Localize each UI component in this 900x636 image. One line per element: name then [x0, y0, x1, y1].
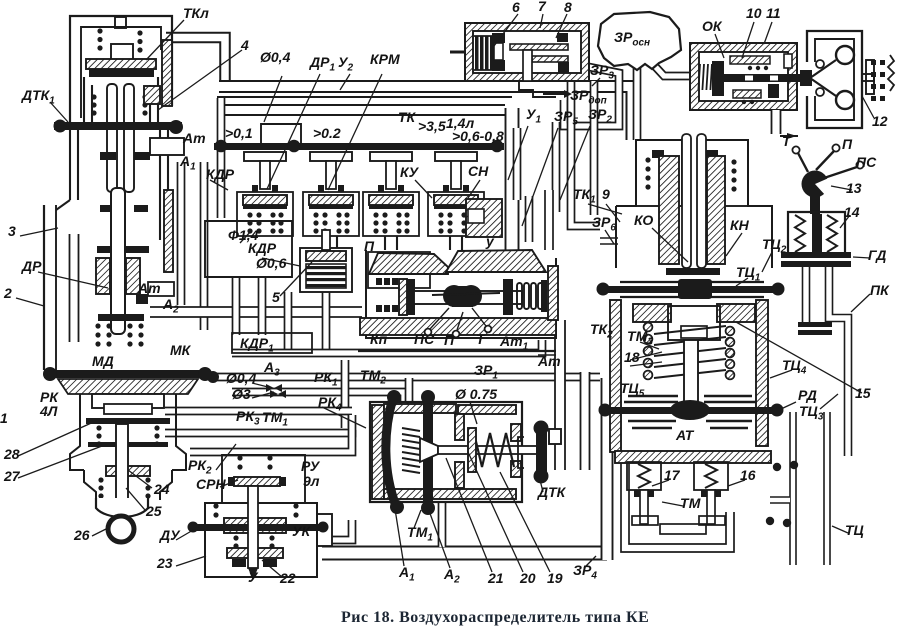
spring of TKl valve	[97, 28, 142, 52]
valve 6-7-8 piston	[492, 33, 505, 71]
diaphragm DTK1	[54, 120, 184, 135]
wire ZR6 stub	[600, 237, 618, 245]
svg-text:СН: СН	[468, 163, 489, 179]
svg-text:28: 28	[3, 446, 20, 462]
wire KRM main line	[219, 87, 632, 141]
rollers of unit 12	[800, 46, 874, 109]
valve TKl lower body	[84, 77, 158, 126]
svg-text:Ø 0.75: Ø 0.75	[455, 386, 497, 402]
svg-text:КРМ: КРМ	[370, 51, 400, 67]
valve 6-7-8 stem	[450, 50, 532, 81]
wire DTK channel right of A1 unit	[554, 320, 566, 470]
wire KDR box down 2	[258, 277, 267, 335]
A1 unit shaft	[438, 446, 538, 454]
tank ZRosn	[598, 12, 681, 70]
regulator bar 25	[88, 442, 168, 447]
svg-text:22: 22	[279, 570, 296, 586]
SN valve body hatch	[466, 199, 502, 237]
svg-text:15: 15	[855, 385, 871, 401]
unit KP right spring loops	[517, 280, 547, 312]
junction dot ZR1	[207, 371, 219, 383]
wire ZRosn down to TK1 unit	[633, 68, 642, 140]
svg-text:4: 4	[240, 37, 249, 53]
wire ZR4 bottom channel	[322, 546, 607, 561]
reducing valve SN	[428, 152, 484, 236]
SRN spring dots	[237, 455, 272, 469]
A1 unit right spring	[468, 428, 514, 472]
regulator lower body	[84, 470, 172, 500]
svg-text:1: 1	[0, 410, 8, 426]
wire GD down left	[802, 266, 811, 322]
UK diaphragm bar	[188, 522, 329, 533]
reducing valve KDR	[237, 152, 293, 236]
stem rods of TKl	[107, 84, 134, 192]
TC5 plates left	[624, 396, 678, 428]
SRN hatched bar	[228, 477, 286, 486]
svg-text:Т: Т	[782, 133, 792, 149]
svg-text:У: У	[248, 569, 259, 585]
valve 3 drop stem	[385, 236, 397, 250]
svg-text:Рис 18. Воздухораспределител: Рис 18. Воздухораспределитель типа КЕ	[341, 609, 649, 626]
TKl right wall hatch	[144, 40, 172, 106]
unit TK1 housing	[616, 140, 772, 268]
wire TC pipe left	[789, 412, 797, 565]
wire U1 channel	[513, 128, 522, 200]
UK lower hatched bar	[227, 548, 283, 567]
bar GD	[781, 252, 851, 267]
svg-text:Ø0,4: Ø0,4	[260, 49, 291, 65]
check valve OK housing	[690, 43, 797, 110]
svg-text:Ат: Ат	[182, 130, 206, 146]
wire duct from TKl valve to KRM line	[166, 38, 225, 93]
unit KP hatched floor	[358, 318, 556, 351]
svg-text:25: 25	[145, 503, 162, 519]
PK link plates	[798, 322, 832, 335]
regulator piston 24 hatched	[106, 466, 150, 476]
svg-text:ТК: ТК	[398, 109, 417, 125]
wire ZR4 left riser	[580, 372, 591, 470]
svg-text:9л: 9л	[303, 473, 320, 489]
spring 18 coil sections	[726, 327, 735, 380]
unit RD floor hatched	[615, 451, 771, 463]
svg-text:П: П	[444, 332, 455, 348]
UK hatched block	[224, 518, 286, 533]
svg-text:ТЦ: ТЦ	[845, 522, 864, 538]
svg-text:27: 27	[3, 468, 21, 484]
wire A1 unit drain	[438, 502, 447, 547]
base plate TM	[660, 524, 706, 534]
svg-text:14: 14	[844, 204, 860, 220]
valve TKl housing	[70, 16, 172, 128]
svg-text:МД: МД	[92, 353, 114, 369]
spring TM3 coil sections	[644, 323, 653, 380]
svg-text:КУ: КУ	[400, 164, 420, 180]
valve 6-7-8 right blocks	[557, 33, 569, 73]
wire SN drop channel	[525, 196, 534, 242]
svg-text:17: 17	[664, 467, 681, 483]
UK spring dots	[213, 503, 298, 548]
svg-text:ПС: ПС	[414, 331, 435, 347]
fork 25	[96, 498, 148, 517]
unit KP right wall	[548, 266, 558, 320]
caption	[341, 609, 649, 626]
valve 6-7-8 hatched seats	[510, 44, 568, 62]
svg-text:МК: МК	[170, 342, 192, 358]
regulator bar 28	[86, 418, 170, 424]
svg-text:5: 5	[272, 289, 280, 305]
svg-text:ДТК: ДТК	[537, 484, 567, 500]
seat bar TC1	[666, 268, 720, 275]
diaphragm bar TKl	[89, 69, 154, 77]
regulator stem	[116, 424, 128, 504]
wire RK1 channel	[232, 392, 404, 404]
svg-text:КДР: КДР	[248, 240, 277, 256]
unit KP left slab	[399, 279, 415, 315]
unit KP shaft	[414, 291, 522, 304]
spring dots DR	[95, 323, 143, 346]
valve KN hatched slab	[707, 156, 725, 264]
svg-text:26: 26	[73, 527, 90, 543]
manifold bar TK	[214, 140, 504, 153]
svg-text:ТКл: ТКл	[183, 5, 209, 21]
valve 6-7-8 housing	[465, 23, 589, 81]
svg-text:РД: РД	[798, 387, 817, 403]
svg-text:4Л: 4Л	[39, 403, 58, 419]
RD stem	[684, 340, 698, 404]
DTK capsule	[518, 421, 549, 484]
UK stem	[248, 486, 258, 580]
piston hatch DR right	[126, 258, 140, 294]
orifice symbols F04 F3	[266, 384, 286, 398]
svg-text:у: у	[485, 233, 495, 249]
wire TM1 channel	[165, 415, 352, 433]
svg-text:8: 8	[564, 0, 572, 15]
unit KP pin circles	[425, 308, 492, 337]
wire KDR box down	[232, 277, 241, 335]
spring box 14	[788, 212, 845, 256]
diaphragm bar RD	[599, 400, 784, 420]
unit SRN upper box	[222, 455, 305, 503]
DTK side port	[549, 429, 561, 444]
piston TKl hatched cap	[86, 59, 156, 69]
svg-text:>0,1: >0,1	[225, 125, 253, 141]
seat bar DR	[97, 246, 149, 253]
svg-text:РУ: РУ	[301, 458, 321, 474]
svg-text:КН: КН	[730, 217, 750, 233]
valve DR housing	[44, 200, 168, 370]
A1 unit cone	[420, 438, 438, 462]
valve 17	[627, 462, 661, 525]
svg-text:19: 19	[547, 570, 563, 586]
svg-text:11: 11	[766, 5, 781, 21]
unit KP roof slab left	[369, 253, 448, 274]
piston 5	[300, 230, 352, 292]
svg-text:>0,6-0,8: >0,6-0,8	[452, 128, 504, 144]
svg-text:ТМ: ТМ	[680, 495, 701, 511]
TK1 left tower	[636, 140, 682, 206]
svg-text:ДР: ДР	[21, 258, 42, 274]
valve 4 drop stem	[450, 236, 462, 250]
unit A1 hatched walls	[372, 404, 516, 499]
reducing valve KU	[363, 152, 419, 236]
svg-text:Ø0,6: Ø0,6	[256, 255, 287, 271]
svg-text:21: 21	[487, 570, 504, 586]
wire U1a channel	[552, 122, 561, 212]
svg-text:ГД: ГД	[868, 247, 886, 263]
TC5 plates right	[704, 396, 756, 428]
diaphragm bar TC1 main	[597, 279, 785, 299]
valve TKl body below diaphragm	[70, 130, 184, 200]
unit A1 mid hatched slabs	[455, 414, 521, 488]
unit RD housing walls	[610, 300, 768, 452]
wire OK drain down	[771, 110, 782, 134]
unit UK housing	[205, 503, 332, 577]
orifice box KDR	[205, 221, 292, 277]
spring 18 coil body	[654, 326, 726, 378]
svg-text:6: 6	[512, 0, 520, 15]
svg-text:Ø0,4: Ø0,4	[226, 370, 257, 386]
svg-text:ОК: ОК	[702, 18, 723, 34]
stem rod DR	[111, 188, 125, 334]
svg-text:КО: КО	[634, 212, 653, 228]
regulator springs 25	[98, 477, 150, 498]
cylinder 11-12 housing	[807, 31, 862, 128]
KN spring dots	[731, 159, 736, 191]
wire At1 channel	[544, 190, 554, 250]
regulator RK housing	[70, 394, 186, 470]
mark T top	[780, 133, 798, 139]
svg-text:2: 2	[3, 285, 12, 301]
svg-text:АТ: АТ	[675, 427, 695, 443]
At overbar mark	[538, 354, 556, 356]
wire piston5 down 2	[322, 292, 331, 352]
svg-text:ПК: ПК	[870, 282, 890, 298]
MK wall hatch	[164, 190, 173, 272]
A1 unit spring left	[402, 428, 420, 473]
DR lower seat bar	[98, 294, 148, 321]
wire MK to KP unit	[150, 306, 362, 318]
reducing valve KU1	[303, 152, 359, 236]
wire TC stub	[770, 496, 790, 504]
svg-text:18: 18	[624, 349, 640, 365]
wire TM bottom loop	[625, 455, 730, 548]
svg-text:Кп: Кп	[370, 331, 388, 347]
valve 2 drop stem	[325, 236, 337, 248]
svg-text:13: 13	[846, 180, 862, 196]
wire ZR5 channel	[571, 81, 600, 226]
diaphragm MD bar	[43, 367, 212, 381]
unit A1 housing	[370, 402, 522, 502]
svg-text:П: П	[842, 136, 853, 152]
svg-text:КДР: КДР	[206, 166, 235, 182]
unit KP left seat dashes	[376, 278, 398, 312]
unit KP roof slab right	[446, 250, 546, 272]
ring 26	[108, 516, 134, 542]
pushrod dots 12	[871, 55, 894, 101]
wire left staircase channel	[69, 234, 80, 342]
regulator springs 27	[96, 425, 159, 446]
svg-text:Ат: Ат	[137, 280, 161, 296]
svg-text:Т: Т	[476, 331, 486, 347]
svg-text:ДУ: ДУ	[159, 527, 181, 543]
wire ZR1 channel	[213, 373, 600, 382]
piston hatch DR left	[96, 258, 110, 294]
wire ZR2 loop from valve 6-7-8	[564, 60, 619, 126]
channel box KDR1	[232, 333, 312, 353]
unit KP ball valve	[432, 285, 500, 307]
wire ZRosn to OK check valve	[651, 62, 696, 76]
svg-text:СРН: СРН	[196, 476, 226, 492]
svg-text:3: 3	[8, 223, 16, 239]
diaphragm A2 bar	[421, 390, 435, 515]
wire ZR2 channel down	[590, 81, 599, 215]
TC pipe dots	[766, 461, 798, 527]
diaphragm A1 curved	[386, 390, 404, 514]
unit KP housing	[366, 250, 556, 338]
wire A2 channel left	[200, 162, 209, 330]
wire RK1 vertical	[341, 360, 350, 428]
svg-text:ПС: ПС	[856, 154, 877, 170]
valve 6-7-8 outlet ZRdop	[519, 81, 572, 98]
valve KO hatched slab	[659, 156, 679, 264]
svg-text:10: 10	[746, 5, 762, 21]
svg-text:16: 16	[740, 467, 756, 483]
port At on DR	[148, 282, 174, 296]
wire piston5 down	[284, 292, 293, 352]
wire A3 AT channel	[232, 340, 542, 353]
wire TM2 vertical	[405, 378, 414, 402]
svg-text:24: 24	[153, 481, 170, 497]
svg-text:>3,5: >3,5	[418, 118, 446, 134]
wire UK to ZR4	[332, 520, 352, 540]
svg-text:Ø3: Ø3	[232, 386, 251, 402]
needle rods TK1	[682, 134, 706, 268]
valve 16	[694, 462, 728, 525]
svg-text:П: П	[364, 238, 375, 254]
svg-text:12: 12	[872, 113, 888, 129]
wire RK3 channel	[165, 407, 352, 416]
svg-text:УК: УК	[292, 523, 311, 539]
check valve OK internals	[698, 54, 804, 104]
diaphragm MD hatched plate	[58, 379, 198, 394]
svg-text:9: 9	[602, 186, 610, 202]
orifice port 0.4 above valve KDR	[261, 124, 301, 143]
unit KP right slab	[503, 279, 513, 315]
handle 13	[792, 144, 863, 214]
TK1 right tower	[700, 140, 748, 206]
KO spring dots	[645, 157, 650, 189]
svg-text:Ат: Ат	[537, 353, 561, 369]
wire KDR feed	[217, 98, 226, 218]
wire ZR4 riser	[601, 378, 614, 560]
unit RD top header	[633, 304, 755, 340]
wire branch down to SN valve	[505, 108, 520, 268]
svg-text:>0.2: >0.2	[313, 125, 341, 141]
svg-text:20: 20	[519, 570, 536, 586]
wire PK channel	[829, 266, 848, 456]
wire RK2 channel	[190, 430, 352, 452]
wire U2 lines	[217, 97, 512, 115]
valve 6-7-8 spring	[474, 36, 494, 70]
DR upper seats	[100, 152, 150, 212]
spring dots below TKl bar	[91, 94, 147, 115]
svg-text:23: 23	[156, 555, 173, 571]
svg-text:7: 7	[538, 0, 547, 14]
wire A1 channel left	[177, 162, 186, 305]
wire TC pipe right	[823, 412, 831, 565]
